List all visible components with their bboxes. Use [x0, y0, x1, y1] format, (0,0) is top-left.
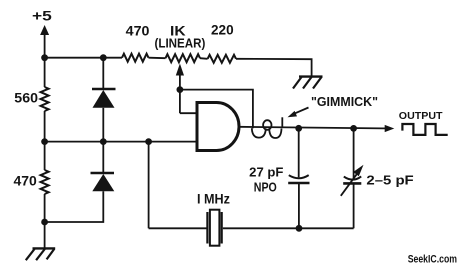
trimmer capacitor branch wire upper [353, 128, 355, 178]
wire feedback from wiper [180, 90, 253, 129]
crystal Y1 (1 MHz) [206, 212, 208, 244]
wire bottom rail right [223, 227, 354, 229]
wire crystal branch vertical [148, 142, 150, 229]
wire left rail [44, 58, 46, 87]
NAND gate U1 [197, 103, 239, 151]
svg-text:NPO: NPO [254, 181, 277, 195]
output arrowhead [385, 125, 395, 132]
resistor 470 (top) [122, 54, 149, 62]
gimmick twisted-wire capacitor [252, 117, 282, 138]
svg-text:560: 560 [14, 89, 38, 105]
svg-text:470: 470 [126, 23, 150, 39]
trimmer capacitor branch wire lower [353, 183, 355, 228]
gimmick pointer arrow [293, 108, 309, 115]
wire bottom rail left [149, 227, 207, 229]
potentiometer 1K element [166, 54, 201, 62]
svg-text:+5: +5 [32, 8, 52, 24]
wire gate upper input stub [180, 112, 197, 114]
wire top rail pot-to-220 segment [149, 57, 166, 60]
potentiometer wiper arrow [176, 64, 184, 76]
diode D2 [102, 142, 104, 174]
trimmer adjustment arrow [341, 172, 359, 196]
svg-text:SeekIC.com: SeekIC.com [408, 254, 457, 266]
svg-text:27 pF: 27 pF [249, 165, 284, 179]
trimmer capacitor C (2-5 pF) [344, 176, 361, 179]
svg-text:OUTPUT: OUTPUT [399, 110, 443, 122]
svg-text:I MHz: I MHz [197, 191, 230, 207]
svg-text:2–5 pF: 2–5 pF [366, 174, 414, 188]
diode D1 [102, 58, 104, 90]
wire middle rail (gate lower input) [45, 141, 197, 143]
wire top rail [45, 57, 122, 59]
output square wave symbol [402, 124, 447, 135]
wire gate output [239, 127, 386, 129]
wire top rail right segment to ground [236, 59, 312, 77]
svg-text:(LINEAR): (LINEAR) [155, 36, 206, 50]
resistor 220 [208, 55, 236, 63]
+5 supply arrow [40, 25, 49, 35]
ground (top right) [293, 77, 323, 89]
svg-text:470: 470 [14, 172, 38, 188]
svg-text:"GIMMICK": "GIMMICK" [311, 94, 378, 109]
capacitor 27pF [289, 175, 309, 178]
resistor 560 [41, 87, 49, 111]
ground (bottom left) [26, 248, 55, 260]
svg-text:220: 220 [211, 22, 234, 38]
resistor 470 (left) [41, 170, 49, 194]
capacitor 27pF branch wire upper [298, 128, 300, 177]
capacitor 27pF branch wire lower [298, 183, 300, 228]
